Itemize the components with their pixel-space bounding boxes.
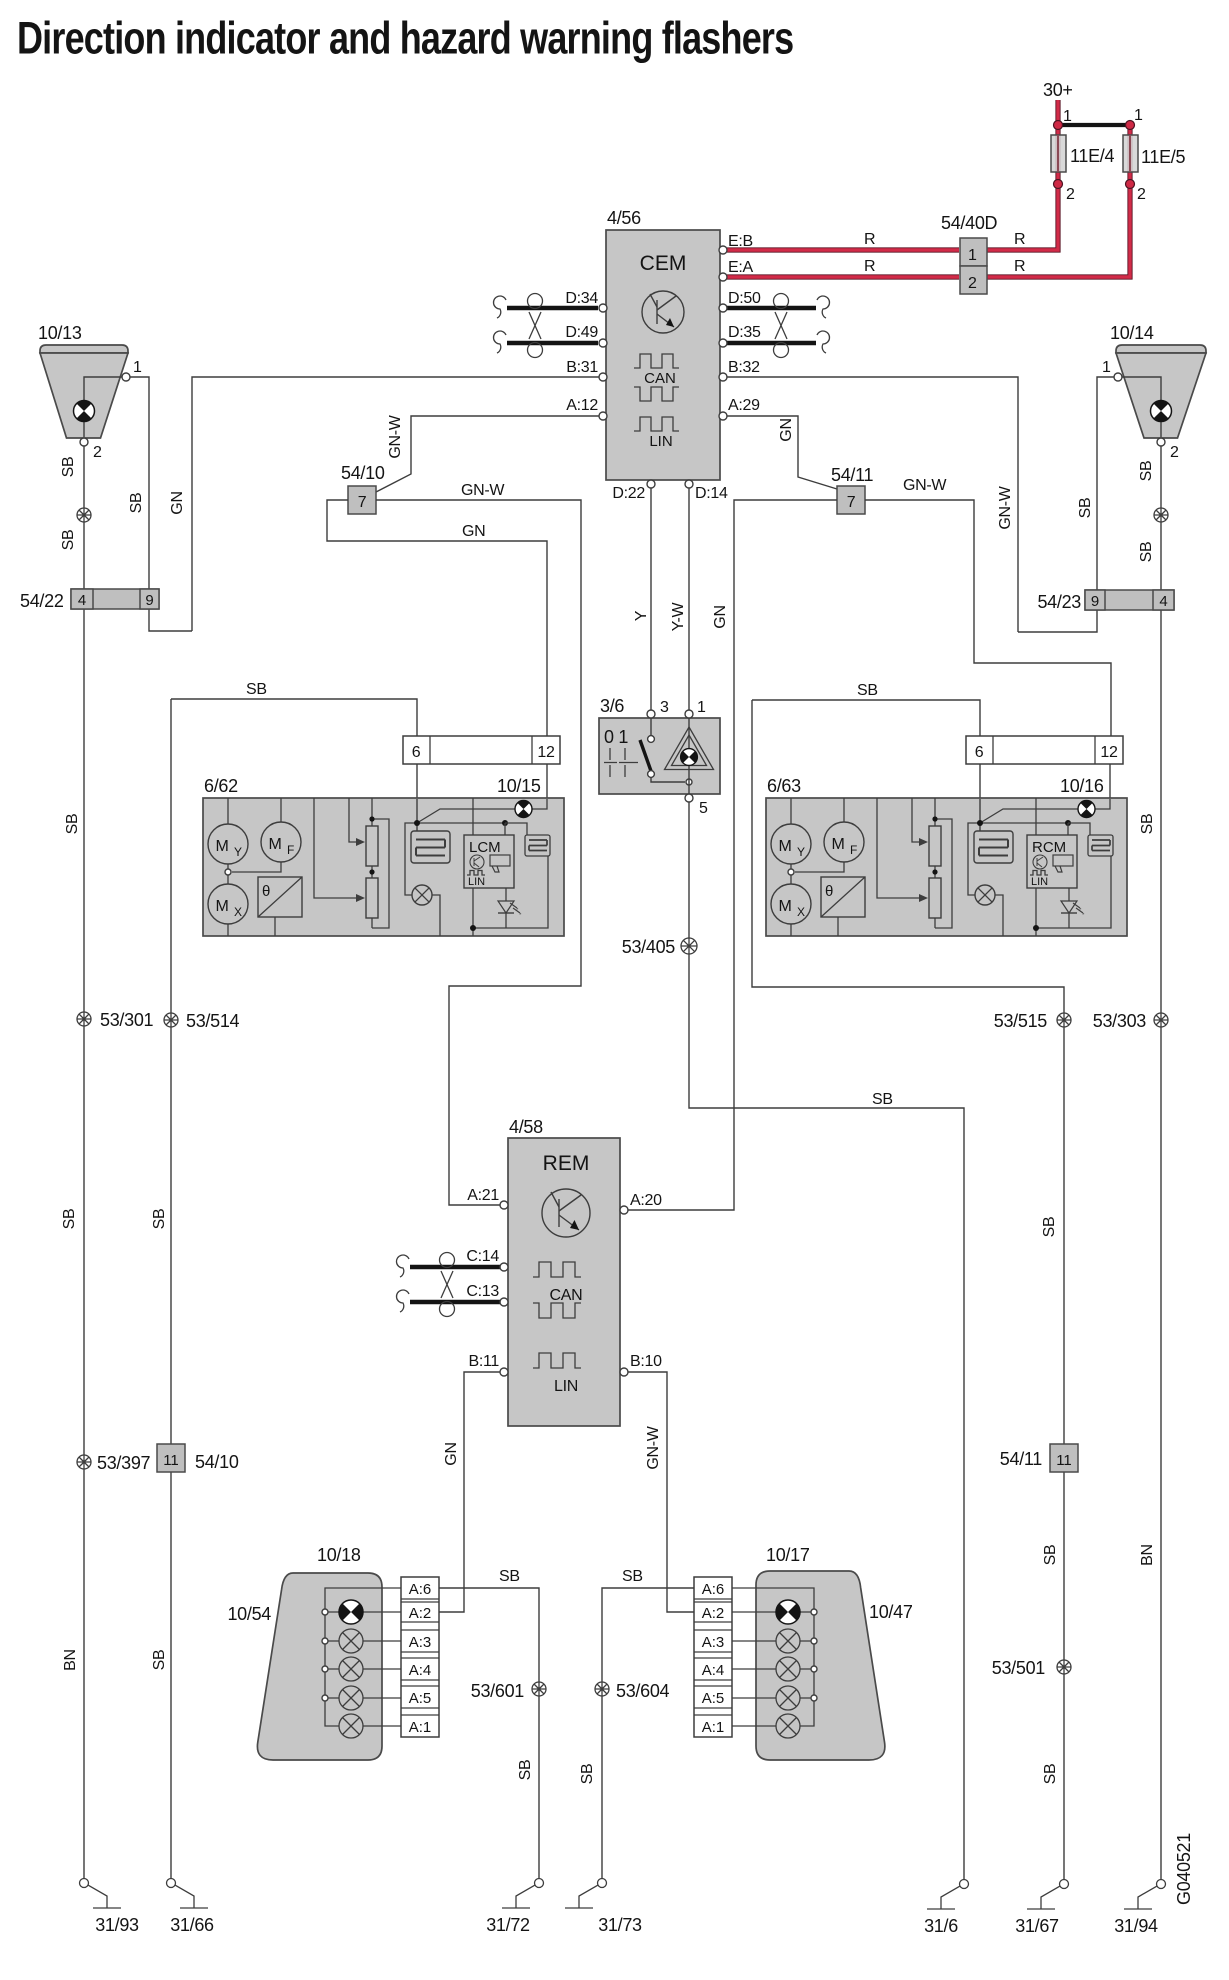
svg-text:9: 9 [1091,593,1099,610]
wire GN-W 54/23 to CEM B:32 [727,377,1018,632]
svg-text:GN-W: GN-W [645,1425,662,1469]
svg-text:53/405: 53/405 [622,937,676,957]
svg-text:53/397: 53/397 [97,1453,151,1473]
svg-text:A:12: A:12 [566,397,598,414]
wire GN 54/10 to door module 6/62 pin 12 [327,500,547,736]
fuse 11E/4 [1051,135,1066,172]
svg-text:7: 7 [847,494,856,511]
wire 30+ feed (red) [1055,100,1060,125]
svg-text:LIN: LIN [649,433,672,450]
pin D:50 [719,304,727,312]
twisted pair CAN wires at D:50/D:35 [727,306,816,310]
svg-text:10/18: 10/18 [317,1545,361,1565]
svg-text:SB: SB [246,681,267,698]
ground 31/67 [1027,1880,1069,1910]
fuse 11E/5 [1123,135,1138,172]
svg-text:53/303: 53/303 [1093,1011,1147,1031]
svg-text:Y: Y [633,610,650,621]
svg-text:SB: SB [499,1568,520,1585]
wire E:B red segment CEM to 54/40D [727,247,959,252]
turn indicator bulb A:2 [776,1600,800,1624]
pin C:13 [500,1298,508,1306]
door mirror module 6/62 [203,798,564,936]
pin E:A [719,273,727,281]
svg-text:31/93: 31/93 [95,1915,139,1935]
inline connector 54/11 pin 11 [1050,1444,1078,1472]
splice 53/301 [77,1012,91,1026]
transistor symbol inside CEM [642,291,684,333]
svg-text:10/17: 10/17 [766,1545,810,1565]
wire SB down to ground 31/66 [170,699,172,1879]
pin column of 10/18 [401,1577,439,1737]
ground 31/93 [80,1879,122,1909]
svg-text:54/22: 54/22 [20,591,64,611]
bulb A:3 [339,1629,363,1653]
hazard warning switch 3/6 [599,718,720,794]
svg-text:R: R [864,231,875,248]
svg-text:SB: SB [1042,1545,1059,1566]
svg-text:SB: SB [579,1764,596,1785]
wire GN-W CEM A:12 to connector 54/10 [376,416,599,492]
pin C:14 [500,1263,508,1271]
ground 31/6 [927,1880,969,1910]
wire Y CEM D:22 to hazard switch pin 3 [650,488,652,710]
svg-text:2: 2 [93,444,102,461]
svg-text:11E/5: 11E/5 [1141,147,1185,167]
svg-text:9: 9 [145,592,153,609]
splice 53/405 [681,938,697,954]
pin 1 of 10/13 [122,373,130,381]
pin 2 of 10/13 [80,438,88,446]
LIN waveform symbol [533,1353,581,1368]
mirror unit 10/13 body [40,345,128,353]
svg-text:D:50: D:50 [728,290,761,307]
pin 5 of 3/6 [685,794,693,802]
bulb A:1 [339,1714,363,1738]
connector 54/40D pin 1 [960,238,987,266]
pin B:32 [719,373,727,381]
svg-text:A:5: A:5 [702,1690,725,1707]
svg-text:SB: SB [872,1091,893,1108]
svg-text:2: 2 [1066,186,1075,203]
pin B:31 [599,373,607,381]
svg-text:53/604: 53/604 [616,1681,670,1701]
svg-text:10/47: 10/47 [869,1602,913,1622]
svg-text:12: 12 [537,744,555,761]
svg-text:4: 4 [1159,593,1167,610]
svg-text:A:3: A:3 [409,1634,432,1651]
connector 54/11 pin 7 [837,486,865,514]
svg-text:CEM: CEM [640,252,687,275]
svg-text:A:29: A:29 [728,397,760,414]
svg-text:C:13: C:13 [466,1283,499,1300]
svg-text:GN: GN [778,418,795,441]
pin D:22 [647,480,655,488]
svg-text:B:11: B:11 [468,1353,499,1370]
svg-text:2: 2 [1137,186,1146,203]
svg-text:SB: SB [60,457,77,478]
ground 31/73 [565,1879,607,1909]
svg-text:GN-W: GN-W [997,485,1014,529]
svg-text:12: 12 [1100,744,1118,761]
svg-text:4/58: 4/58 [509,1117,543,1137]
svg-text:Direction indicator and hazard: Direction indicator and hazard warning f… [17,13,793,64]
svg-text:53/515: 53/515 [994,1011,1048,1031]
pin D:49 [599,339,607,347]
svg-text:E:A: E:A [728,259,754,276]
wire SB mirror pin1 to connector 54/23 pin 9 [1018,377,1114,632]
svg-text:A:3: A:3 [702,1634,725,1651]
svg-text:SB: SB [151,1209,168,1230]
svg-text:1: 1 [1063,108,1072,125]
svg-text:C:14: C:14 [466,1248,499,1265]
indicator bulb in 10/14 [1151,401,1172,422]
splice on right mirror ground wire [1154,508,1168,522]
svg-text:53/601: 53/601 [471,1681,525,1701]
svg-text:A:20: A:20 [630,1192,662,1209]
wire pin12 into module [1109,764,1111,799]
door mirror module 6/63 [766,798,1127,936]
svg-text:5: 5 [699,800,708,817]
svg-text:SB: SB [1138,542,1155,563]
svg-text:A:4: A:4 [409,1662,432,1679]
wire GN 54/22 to CEM B:31 [192,377,599,631]
svg-text:31/67: 31/67 [1015,1916,1059,1936]
svg-text:B:31: B:31 [566,359,598,376]
wire pin6 into module [979,764,981,799]
LIN waveform symbol [634,417,679,431]
svg-text:CAN: CAN [550,1287,583,1304]
svg-text:A:5: A:5 [409,1690,432,1707]
CAN waveform symbol [634,354,679,368]
svg-text:SB: SB [1077,498,1094,519]
svg-text:SB: SB [1138,461,1155,482]
svg-text:11: 11 [163,1452,179,1469]
svg-text:31/73: 31/73 [598,1915,642,1935]
rear lamp cluster 10/54 body [257,1573,382,1760]
svg-text:BN: BN [1139,1544,1156,1566]
svg-text:1: 1 [697,699,706,716]
svg-text:A:2: A:2 [702,1605,725,1622]
svg-text:A:21: A:21 [467,1187,499,1204]
pin column of 10/17 [694,1577,732,1737]
inline connector 54/10 pin 11 [157,1444,185,1472]
CAN waveform symbol [533,1262,581,1277]
svg-text:D:49: D:49 [565,324,598,341]
svg-text:3: 3 [660,699,669,716]
svg-text:R: R [1014,258,1025,275]
svg-text:30+: 30+ [1043,80,1073,100]
switch contact and lever [650,718,652,735]
svg-text:54/10: 54/10 [195,1452,239,1472]
indicator lamp in hazard switch [681,749,698,766]
svg-text:SB: SB [60,530,77,551]
svg-text:D:35: D:35 [728,324,761,341]
wire inside mirror 10/13 [84,377,122,437]
pin 1 of 3/6 [685,710,693,718]
wire fuse 11E/4 branch (red) [987,125,1058,250]
SB feed wire to 6/62 pin 6 [171,699,417,736]
wire SB down via 53/515 to 31/67 [752,700,1064,1879]
wire GN 54/11 to REM A:20 [627,500,837,1210]
connector row of 6/63 (pins 6 and 12) [966,736,1123,764]
svg-text:6: 6 [412,744,421,761]
svg-text:SB: SB [1042,1764,1059,1785]
internal bus wiring [325,1588,401,1726]
pin D:35 [719,339,727,347]
svg-text:7: 7 [358,494,367,511]
svg-text:A:2: A:2 [409,1605,432,1622]
wire GN-W 54/11 to door module 6/63 pin 12 [865,500,1111,736]
svg-text:A:6: A:6 [702,1581,725,1598]
rear lamp cluster 10/47 body [756,1571,885,1760]
bulb A:4 [339,1657,363,1681]
pin 2 of fuse 11E/5 [1126,180,1135,189]
svg-text:D:14: D:14 [695,485,728,502]
bulb A:4 [776,1657,800,1681]
svg-text:A:4: A:4 [702,1662,725,1679]
wire Y-W CEM D:14 to hazard switch pin 1 [688,488,690,710]
pin A:21 [500,1201,508,1209]
connector 54/22 [71,589,159,609]
pin 3 of 3/6 [647,710,655,718]
wire SB hazard pin 5 down to 31/6 [689,802,964,1879]
svg-text:BN: BN [62,1649,79,1671]
svg-text:1: 1 [1102,359,1111,376]
connector 54/23 [1085,590,1174,610]
svg-text:D:34: D:34 [565,290,598,307]
svg-text:SB: SB [1139,814,1156,835]
svg-text:11: 11 [1056,1452,1072,1469]
svg-text:CAN: CAN [644,370,676,387]
svg-text:54/11: 54/11 [1000,1449,1042,1469]
wire bridge between fuse pins 1 [1058,123,1130,127]
svg-text:LCM: LCM [469,839,501,856]
svg-text:54/10: 54/10 [341,463,385,483]
connector 54/10 pin 7 [348,486,376,514]
svg-text:LIN: LIN [468,876,485,888]
svg-text:2: 2 [1170,444,1179,461]
junction node fuse 11E/4 pin 1 [1054,121,1063,130]
svg-text:A:6: A:6 [409,1581,432,1598]
svg-text:31/66: 31/66 [170,1915,214,1935]
hazard triangle symbol [665,727,714,770]
svg-text:A:1: A:1 [702,1719,725,1736]
ground 31/72 [502,1879,544,1909]
svg-text:GN-W: GN-W [903,477,947,494]
pin B:10 [620,1368,628,1376]
twisted pair CAN wires at D:34/D:49 [507,306,598,310]
svg-text:6/62: 6/62 [204,776,238,796]
svg-text:10/14: 10/14 [1110,323,1154,343]
svg-text:G040521: G040521 [1174,1833,1194,1905]
svg-text:GN-W: GN-W [387,414,404,458]
wire GN-W REM B:10 to lamp 10/17 A:2 [628,1372,694,1612]
bulb A:5 [339,1686,363,1710]
svg-text:R: R [864,258,875,275]
svg-text:GN: GN [712,605,729,628]
svg-text:GN: GN [462,523,485,540]
svg-text:SB: SB [151,1650,168,1671]
svg-text:31/72: 31/72 [486,1915,530,1935]
wire inside mirror 10/14 [1122,377,1161,437]
wire E:A red segment CEM to 54/40D [727,274,959,279]
svg-text:1: 1 [968,247,977,264]
pin A:20 [620,1206,628,1214]
connector row of 6/62 (pins 6 and 12) [403,736,560,764]
wire SB mirror pin2 ground run to 31/93 [83,446,85,1879]
svg-text:SB: SB [128,493,145,514]
splice 53/515 [1057,1013,1071,1027]
svg-text:GN: GN [443,1442,460,1465]
svg-text:6/63: 6/63 [767,776,801,796]
connector 54/40D pin 2 [960,266,987,294]
wire SB lamp A:6 to ground 31/72 [439,1588,539,1879]
svg-text:4: 4 [78,592,86,609]
wire pin6 into module [416,764,418,799]
svg-text:REM: REM [543,1152,590,1175]
pin A:12 [599,412,607,420]
svg-text:10/54: 10/54 [227,1604,271,1624]
svg-text:SB: SB [622,1568,643,1585]
svg-text:E:B: E:B [728,233,753,250]
pin D:14 [685,480,693,488]
turn indicator bulb A:2 [339,1600,363,1624]
wire GN REM B:11 to lamp 10/18 A:2 [439,1372,500,1612]
svg-text:4/56: 4/56 [607,208,641,228]
svg-text:54/11: 54/11 [831,465,873,485]
svg-text:3/6: 3/6 [600,696,624,716]
splice 53/501 [1057,1660,1071,1674]
svg-text:SB: SB [857,682,878,699]
svg-text:LIN: LIN [1031,876,1048,888]
svg-text:53/514: 53/514 [186,1011,240,1031]
splice 53/604 [595,1682,609,1696]
svg-text:54/23: 54/23 [1037,592,1081,612]
control module REM 4/58 [508,1138,620,1426]
splice 53/514 [164,1013,178,1027]
internal bus wiring [732,1588,814,1726]
pin 2 of 10/14 [1157,438,1165,446]
wire GN-W 54/10 to REM A:21 [376,500,581,1205]
mirror unit 10/14 body [1116,345,1206,353]
svg-text:RCM: RCM [1032,839,1066,856]
control module CEM 4/56 [606,230,720,480]
bulb A:1 [776,1714,800,1738]
svg-text:Y-W: Y-W [670,601,687,631]
SB feed wire to 6/63 pin 6 [752,700,980,736]
pin E:B [719,246,727,254]
svg-text:1: 1 [133,359,142,376]
pin B:11 [500,1368,508,1376]
svg-text:53/501: 53/501 [992,1658,1046,1678]
svg-text:B:32: B:32 [728,359,760,376]
wire GN CEM A:29 to connector 54/11 [727,416,837,489]
wire SB mirror pin2 ground run to 31/94 [1160,446,1162,1879]
svg-text:SB: SB [61,1209,78,1230]
ground 31/66 [167,1879,209,1909]
svg-text:10/16: 10/16 [1060,776,1104,796]
splice on left mirror ground wire [77,508,91,522]
svg-text:2: 2 [968,275,977,292]
pin 2 of fuse 11E/4 [1054,180,1063,189]
svg-text:0 1: 0 1 [604,727,628,747]
svg-text:31/6: 31/6 [924,1916,958,1936]
wire through triangle lamp [688,718,690,794]
indicator bulb in 10/13 [74,401,95,422]
wire pin12 into module [546,764,548,799]
svg-text:SB: SB [64,814,81,835]
transistor symbol inside REM [542,1189,590,1237]
splice 53/303 [1154,1013,1168,1027]
svg-text:SB: SB [517,1760,534,1781]
ground 31/94 [1124,1880,1166,1910]
svg-text:A:1: A:1 [409,1719,432,1736]
svg-text:53/301: 53/301 [100,1010,154,1030]
svg-text:SB: SB [1041,1217,1058,1238]
pin D:34 [599,304,607,312]
junction node fuse 11E/5 pin 1 [1126,121,1135,130]
svg-text:31/94: 31/94 [1114,1916,1158,1936]
svg-text:GN-W: GN-W [461,482,505,499]
bulb A:3 [776,1629,800,1653]
svg-text:1: 1 [1134,107,1143,124]
svg-text:LIN: LIN [554,1378,578,1395]
svg-text:54/40D: 54/40D [941,213,998,233]
svg-text:10/13: 10/13 [38,323,82,343]
bulb A:5 [776,1686,800,1710]
pin 1 of 10/14 [1114,373,1122,381]
splice 53/397 [77,1455,91,1469]
wire SB mirror pin1 to connector 54/22 pin 9 [130,377,192,631]
wire fuse 11E/5 branch (red) [987,125,1130,277]
svg-text:R: R [1014,231,1025,248]
pin A:29 [719,412,727,420]
svg-text:6: 6 [975,744,984,761]
wire SB lamp A:6 to ground 31/73 [602,1588,694,1879]
svg-text:11E/4: 11E/4 [1070,146,1114,166]
splice 53/601 [532,1682,546,1696]
svg-text:10/15: 10/15 [497,776,541,796]
svg-text:B:10: B:10 [630,1353,662,1370]
svg-text:GN: GN [169,491,186,514]
twisted pair CAN wires at C:14/C:13 [410,1265,500,1269]
svg-text:D:22: D:22 [612,485,645,502]
